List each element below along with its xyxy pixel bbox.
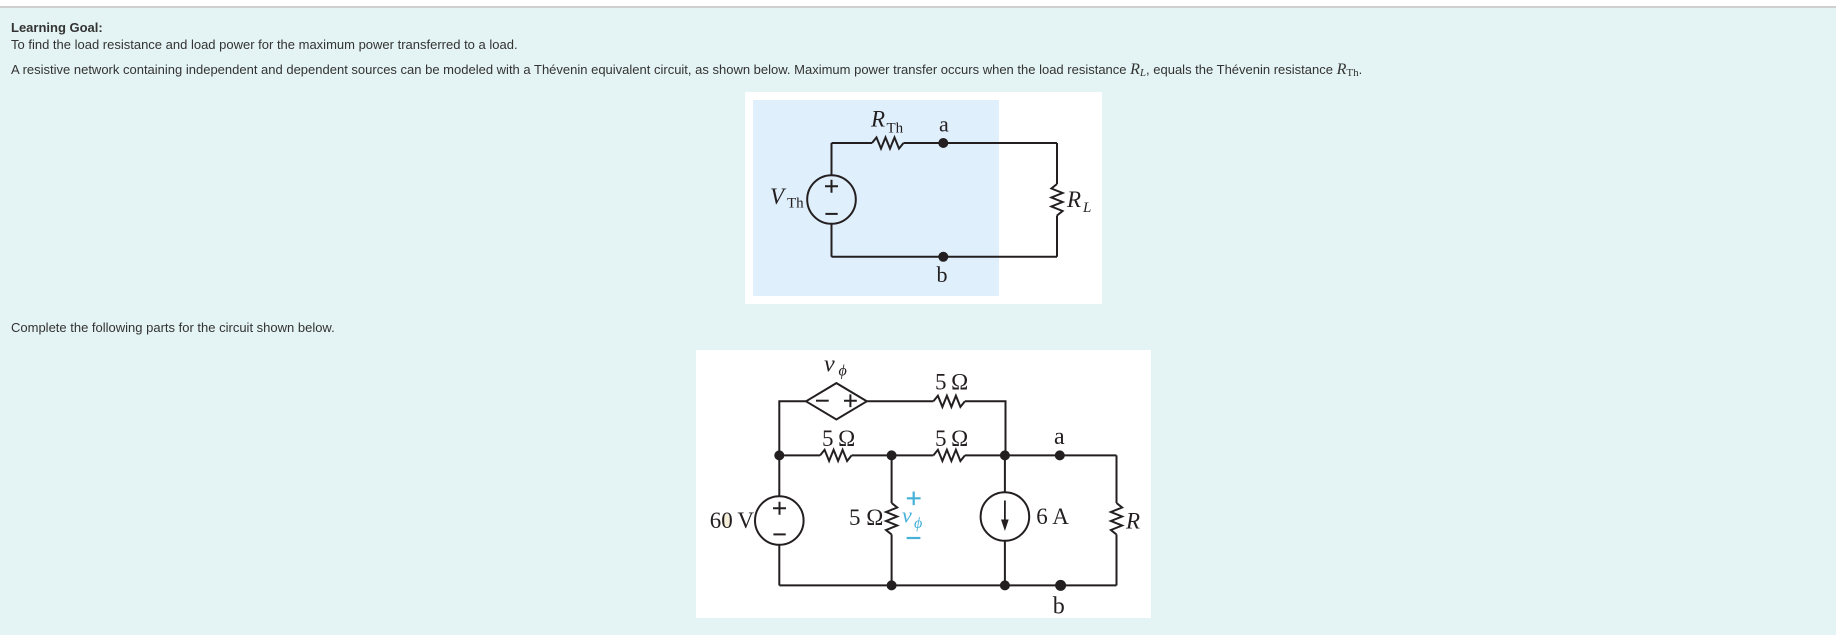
- svg-text:a: a: [1054, 424, 1065, 450]
- resistor RTh (zigzag): [872, 137, 904, 148]
- svg-text:R: R: [870, 107, 885, 132]
- teal minus: [907, 537, 921, 539]
- wire: middle segment 2: [852, 454, 934, 456]
- wire: left vertical upper: [831, 143, 833, 175]
- resistor 5 ohm middle-left (zigzag): [820, 450, 852, 461]
- wire: right branch vertical: [1056, 143, 1058, 257]
- resistor 5 ohm top branch (zigzag): [933, 396, 965, 407]
- current source 6 A branch wires: [1004, 455, 1006, 585]
- teal plus: [907, 492, 921, 506]
- blue highlight panel: [753, 100, 999, 296]
- voltage source VTh (circle with + / -): [807, 175, 856, 224]
- dependent voltage source vphi (diamond with - +): [806, 383, 867, 419]
- svg-text:b: b: [937, 262, 948, 287]
- node a: [1055, 450, 1065, 460]
- voltage source 60 V (circle with + / -) and left branch wires: [778, 455, 780, 585]
- resistor 5 ohm vertical branch with wires: [891, 455, 893, 585]
- svg-text:R: R: [1066, 187, 1081, 212]
- wire: top branch right corner down: [965, 401, 1006, 455]
- svg-text:Th: Th: [887, 121, 904, 137]
- wire: RTh to node a to RL top: [904, 142, 1058, 144]
- node a: [938, 138, 948, 148]
- highlight inside 0 of 60: [722, 514, 730, 528]
- svg-text:L: L: [1082, 200, 1091, 216]
- junction nodes on bottom wire: [887, 580, 897, 590]
- svg-text:v: v: [824, 352, 835, 378]
- svg-text:5 Ω: 5 Ω: [822, 426, 855, 451]
- resistor 5 ohm middle-right (zigzag): [933, 450, 965, 461]
- wire: middle left segment: [779, 454, 820, 456]
- svg-text:5 Ω: 5 Ω: [935, 370, 968, 395]
- svg-text:ϕ: ϕ: [914, 515, 922, 532]
- node b: [1055, 580, 1066, 591]
- wire: diamond to top 5-ohm resistor: [867, 400, 934, 402]
- svg-text:a: a: [939, 112, 949, 137]
- wire: left vertical lower: [831, 224, 833, 257]
- svg-text:ϕ: ϕ: [839, 363, 847, 380]
- wire: VTh top to RTh: [832, 142, 873, 144]
- resistor R (vertical zigzag) with wires: [1116, 455, 1118, 585]
- resistor RL (vertical zigzag): [1051, 184, 1062, 216]
- top white bar divider: [0, 6, 1836, 8]
- svg-text:b: b: [1053, 593, 1065, 618]
- wire: middle segment to node a and R: [965, 454, 1117, 456]
- svg-text:5 Ω: 5 Ω: [935, 426, 968, 451]
- wire: bottom VTh to node b to RL: [832, 256, 1058, 258]
- wire: left corner up to dependent source: [779, 401, 806, 455]
- node b: [938, 252, 948, 262]
- svg-text:60 V: 60 V: [710, 508, 755, 533]
- svg-text:Th: Th: [787, 195, 804, 211]
- svg-text:R: R: [1125, 509, 1140, 534]
- svg-text:6 A: 6 A: [1036, 504, 1069, 529]
- junction nodes on middle wire: [774, 450, 784, 460]
- wire: bottom rail: [779, 584, 1116, 586]
- svg-text:v: v: [902, 503, 912, 528]
- svg-text:5 Ω: 5 Ω: [849, 505, 883, 530]
